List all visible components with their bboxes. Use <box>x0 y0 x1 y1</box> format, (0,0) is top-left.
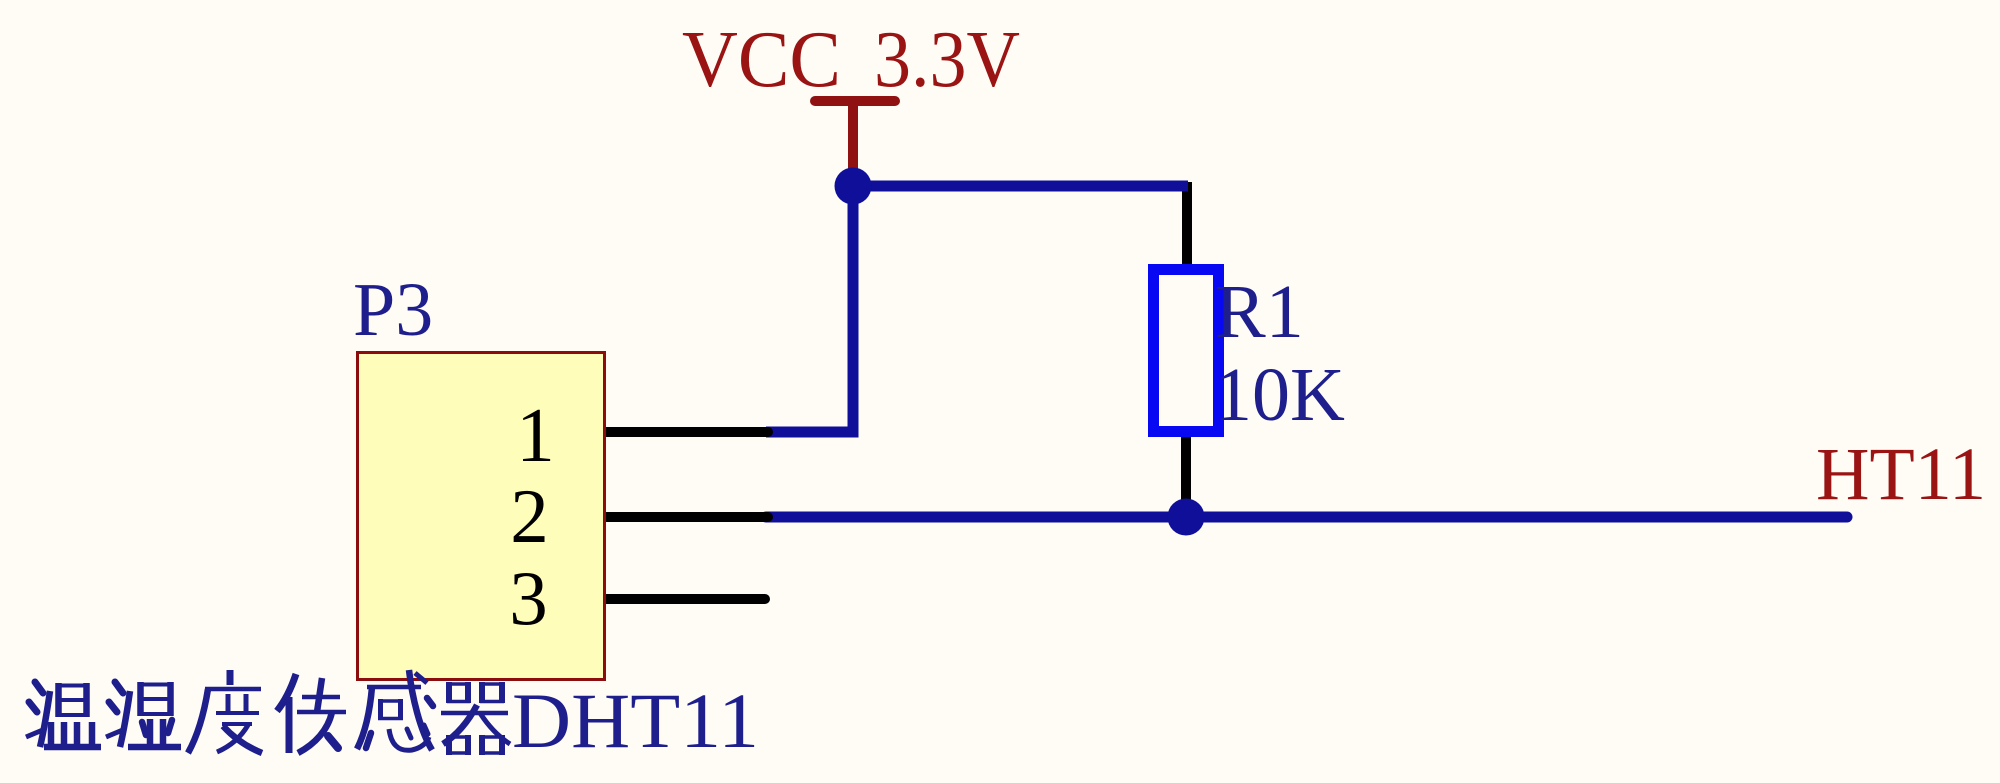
svg-text:1: 1 <box>516 392 555 478</box>
svg-text:DHT11: DHT11 <box>512 677 759 764</box>
svg-text:HT11: HT11 <box>1816 433 1986 516</box>
svg-text:VCC: VCC <box>682 16 841 104</box>
svg-text:10K: 10K <box>1214 353 1345 437</box>
svg-text:P3: P3 <box>353 268 433 352</box>
svg-text:R1: R1 <box>1215 270 1304 354</box>
svg-text:3: 3 <box>509 555 548 641</box>
svg-text:3.3V: 3.3V <box>874 16 1020 104</box>
svg-text:2: 2 <box>510 473 549 559</box>
